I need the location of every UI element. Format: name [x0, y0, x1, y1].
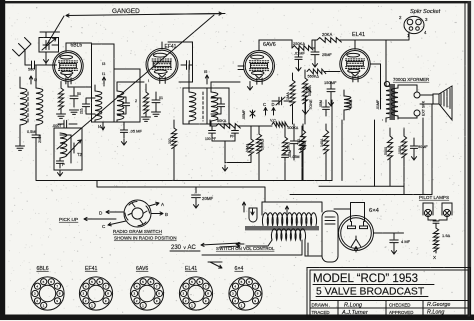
wire OT to terminals — [398, 85, 417, 118]
svg-text:1MA: 1MA — [286, 92, 290, 100]
svg-text:RADIO GRAM SWITCH: RADIO GRAM SWITCH — [113, 229, 162, 234]
title table lines — [310, 301, 468, 316]
power transformer outline — [262, 202, 322, 215]
oscillator tuning cap T2 — [71, 143, 74, 153]
svg-text:150Δ: 150Δ — [349, 99, 353, 108]
svg-text:.05M: .05M — [288, 150, 292, 158]
radiogram switch wafer — [124, 200, 151, 227]
svg-text:5000: 5000 — [384, 147, 388, 155]
svg-text:AC: AC — [188, 245, 197, 251]
resistor 100ohm — [401, 136, 406, 158]
svg-text:6BL6: 6BL6 — [71, 43, 83, 49]
EF41 shield outline — [168, 42, 193, 82]
resistor 1.9 ohm — [433, 228, 438, 252]
svg-text:A.J.Turner: A.J.Turner — [341, 310, 369, 316]
resistor 2.0A — [299, 136, 304, 153]
svg-text:25MF: 25MF — [322, 53, 332, 57]
svg-text:PF: PF — [230, 135, 234, 139]
svg-text:.0007: .0007 — [52, 124, 62, 128]
svg-text:100 PF: 100 PF — [205, 137, 216, 141]
capacitor 0.5M AVC — [32, 135, 40, 138]
svg-text:1.9Δ: 1.9Δ — [442, 233, 451, 238]
svg-text:GANGED: GANGED — [112, 8, 140, 15]
ground antenna coil — [16, 146, 25, 150]
tone variable cap — [279, 97, 282, 105]
mains wire — [202, 240, 308, 255]
wire 6X4 B+ — [374, 233, 404, 239]
ganged link arrow right — [160, 12, 222, 15]
ground detector — [224, 141, 226, 163]
ganged diagonal to tuning cap C1 — [46, 16, 64, 46]
svg-text:.05M: .05M — [292, 155, 300, 159]
screen box cap — [187, 61, 190, 70]
IF1 secondary coil — [117, 91, 124, 120]
tone control 500KA — [302, 78, 307, 104]
resistor 6BL6 cathode — [58, 88, 63, 110]
ganged diagonal to oscillator cap — [57, 15, 214, 149]
svg-text:DRAWN .: DRAWN . — [312, 303, 331, 308]
svg-text:APPROVED: APPROVED — [389, 310, 413, 315]
wire speaker — [420, 95, 433, 104]
svg-text:½MΔ: ½MΔ — [246, 143, 250, 152]
output transformer secondary — [391, 88, 398, 116]
tuning capacitor C1 box — [39, 38, 59, 53]
svg-text:.01MF: .01MF — [376, 99, 380, 110]
svg-text:EL41: EL41 — [185, 266, 197, 272]
valve base 6&#215;4 — [229, 277, 262, 310]
svg-text:6BL6: 6BL6 — [37, 266, 49, 272]
svg-text:20MF: 20MF — [202, 196, 214, 201]
valve base EL41 — [179, 277, 212, 310]
svg-text:100Δ: 100Δ — [398, 145, 402, 154]
svg-text:7000Ω XFORMER: 7000Ω XFORMER — [393, 77, 429, 82]
wire 20MF drop — [195, 187, 197, 193]
resistor 5000 — [387, 136, 392, 160]
IF transformer T1 box A — [92, 44, 115, 122]
antenna coil primary L1 — [20, 88, 27, 125]
svg-text:P: P — [62, 162, 65, 167]
wire EL41 down — [332, 100, 342, 181]
ext spk terminal 2 — [414, 110, 420, 116]
IF1 trimmer cap — [82, 104, 89, 107]
capacitor 100PF a — [209, 131, 216, 134]
switch symbol — [210, 262, 222, 268]
svg-text:0.5M: 0.5M — [27, 130, 35, 134]
svg-text:560KΔ: 560KΔ — [308, 75, 320, 79]
svg-text:6AV6: 6AV6 — [136, 266, 148, 272]
svg-text:EF41: EF41 — [85, 266, 98, 272]
tuning capacitor C1 — [46, 41, 49, 50]
switch arrow A — [149, 202, 159, 206]
pilot lamp wires — [428, 215, 447, 220]
IF2 core dashes — [202, 92, 204, 121]
output transformer core — [390, 84, 396, 120]
svg-text:T2: T2 — [77, 152, 83, 157]
svg-text:70Δ: 70Δ — [297, 138, 301, 145]
valve EF41 V2 — [146, 49, 178, 81]
wire 6AV6 grid — [211, 81, 240, 83]
power transformer core — [245, 226, 319, 230]
mains arrows — [201, 243, 240, 246]
svg-text:R.Long: R.Long — [427, 310, 444, 316]
power transformer arrow — [285, 206, 288, 213]
wire 6AV6 plate top — [259, 40, 292, 51]
capacitor 100PF b — [232, 131, 239, 134]
ground tone — [305, 96, 307, 107]
svg-text:R.George: R.George — [427, 302, 450, 308]
svg-text:TONE: TONE — [309, 99, 313, 110]
wire plate 6BL6 to IF1 — [68, 81, 92, 87]
capacitor 20MF — [192, 195, 201, 198]
wire EF41 plate top — [161, 42, 163, 49]
IF2 secondary coil — [211, 92, 218, 121]
svg-text:6×4: 6×4 — [369, 208, 380, 214]
svg-text:EXT SPK: EXT SPK — [422, 100, 426, 116]
bus earth — [97, 181, 265, 203]
title block inner — [310, 270, 468, 315]
svg-text:I: I — [148, 79, 149, 83]
capacitor .0007 osc grid — [64, 120, 67, 127]
wire 6BL6 top grid cap — [66, 43, 92, 52]
svg-text:X: X — [433, 255, 436, 260]
ground EF41 cathode — [142, 117, 151, 121]
bus AVC — [36, 180, 332, 182]
IF transformer T1 box B — [114, 69, 140, 122]
ground oscillator — [57, 170, 62, 176]
svg-text:.05 MF: .05 MF — [130, 129, 143, 134]
capacitor 4MF — [390, 240, 398, 243]
oscillator coil L3 — [60, 133, 67, 158]
speaker — [433, 94, 439, 104]
capacitor 6BL6 cathode — [70, 96, 78, 99]
wire 6AV6 grid side — [238, 66, 244, 70]
output transformer primary — [386, 86, 393, 118]
terminal P1 — [384, 81, 389, 86]
valve 6BL6 V1 — [53, 51, 83, 81]
ext spk terminal 1 — [414, 92, 420, 98]
switch arrow B — [151, 212, 163, 215]
bus HT return — [290, 186, 432, 194]
svg-text:Spkr Socket: Spkr Socket — [410, 9, 441, 15]
ground 6BL6 cathode — [57, 114, 66, 118]
mains plug arrows — [242, 202, 245, 212]
svg-text:300: 300 — [168, 138, 172, 144]
filter can — [322, 211, 338, 262]
volume control 500KA — [272, 122, 288, 127]
svg-text:CHECKED: CHECKED — [389, 303, 410, 308]
pilot lamp 1 — [423, 203, 433, 215]
svg-text:4 MF: 4 MF — [401, 239, 411, 244]
resistor 1MA — [290, 80, 295, 106]
wire 6X4 anode feeds — [334, 203, 365, 222]
svg-text:.01MF: .01MF — [294, 52, 305, 56]
power transformer primary — [262, 213, 316, 226]
ganged link line — [66, 14, 225, 18]
valve EL41 V4 — [340, 49, 370, 79]
svg-text:500: 500 — [28, 68, 34, 72]
valve 6X4 V5 — [339, 216, 374, 251]
IF2 primary coil — [189, 92, 196, 121]
svg-text:140Δ: 140Δ — [320, 138, 324, 147]
border frame top — [0, 1, 470, 3]
svg-text:100KΔ: 100KΔ — [261, 139, 265, 150]
transformer secondary leads — [246, 240, 322, 256]
resistor 1/2MA — [248, 139, 253, 156]
svg-text:500KΔ: 500KΔ — [288, 126, 299, 130]
core dashes antenna coil — [27, 92, 29, 122]
capacitor .05M EL41 — [290, 141, 297, 144]
border frame left — [0, 0, 5, 316]
resistor 15KA — [282, 137, 287, 154]
svg-text:B: B — [165, 212, 168, 217]
valve base EF41 — [79, 277, 112, 310]
capacitor .05M det — [282, 155, 289, 157]
valve 6AV6 V3 — [244, 51, 275, 82]
ground 6AV6 — [249, 82, 251, 84]
capacitor 90MF — [410, 146, 417, 148]
svg-text:R.Long: R.Long — [344, 303, 363, 309]
antenna — [13, 38, 32, 57]
svg-text:PILOT LAMPS: PILOT LAMPS — [419, 195, 449, 200]
svg-text:6×4: 6×4 — [235, 266, 244, 272]
wire OT secondary down — [375, 120, 383, 186]
wire 6BL6 top — [70, 52, 72, 54]
IF1 primary coil — [95, 91, 102, 120]
title block outer — [307, 268, 471, 318]
wire C1 to grid — [43, 52, 48, 65]
border frame right — [468, 1, 472, 317]
padder cap P — [56, 161, 63, 163]
IF transformer T2 box — [183, 88, 207, 124]
svg-text:01: 01 — [159, 96, 163, 100]
resistor 70ohm — [300, 130, 305, 150]
cathode coil EL41 — [344, 96, 351, 110]
antenna coil secondary L2 — [36, 88, 43, 125]
resistor 100KA — [256, 134, 261, 154]
pilot lamp 2 — [442, 203, 452, 215]
svg-text:15KΔ: 15KΔ — [287, 142, 291, 151]
svg-text:EL41: EL41 — [352, 32, 365, 38]
svg-text:5 VALVE BROADCAST: 5 VALVE BROADCAST — [316, 287, 425, 298]
border frame bottom — [0, 315, 474, 321]
capacitor 500 (antenna coupling) — [25, 64, 57, 66]
EF41 cathode resistor — [143, 92, 148, 114]
svg-text:S W ITCH ON VOL CONTROL: S W ITCH ON VOL CONTROL — [216, 246, 275, 251]
svg-text:EF41: EF41 — [165, 44, 177, 50]
switch arrow C — [108, 221, 126, 226]
oscillator coil box — [54, 128, 82, 170]
mains lead arrow — [236, 242, 244, 245]
wire 6BL6 grid — [35, 65, 37, 88]
IF2 trimmer cap 2 — [217, 104, 224, 107]
IF transformer T2 box B — [207, 88, 229, 124]
speaker socket — [404, 16, 424, 33]
IF1 trimmer cap 2 — [122, 103, 129, 106]
svg-text:PICK UP: PICK UP — [59, 217, 78, 223]
svg-text:230: 230 — [171, 245, 182, 251]
wire EF41 grid — [117, 82, 144, 85]
svg-text:.05MF: .05MF — [242, 109, 246, 120]
valve base 6BL6 — [31, 277, 64, 310]
wire EL41 top to socket — [339, 32, 409, 49]
svg-text:22Δ: 22Δ — [80, 107, 84, 114]
pickup arrow — [84, 217, 116, 220]
EF41 cathode capacitor — [152, 100, 160, 103]
wire osc box — [60, 135, 71, 163]
svg-text:C: C — [263, 102, 266, 107]
power transformer secondary — [271, 229, 305, 240]
wire EL41 plate to OT — [370, 40, 386, 109]
svg-text:50: 50 — [77, 92, 81, 96]
svg-text:V.C: V.C — [270, 119, 276, 123]
svg-text:6AV6: 6AV6 — [263, 42, 276, 48]
scan speckle — [156, 51, 157, 52]
switch arrow D — [106, 210, 124, 213]
wire ext terminals down — [423, 104, 432, 195]
resistor EF41 screen — [171, 128, 176, 149]
svg-text:2MA: 2MA — [37, 134, 42, 143]
svg-text:20KA: 20KA — [322, 32, 332, 37]
valve base 6AV6 — [130, 277, 163, 310]
svg-text:D: D — [272, 102, 275, 107]
resistor 140ohm — [323, 130, 328, 154]
svg-text:SHOWN IN RADIO POSITION: SHOWN IN RADIO POSITION — [114, 236, 177, 241]
